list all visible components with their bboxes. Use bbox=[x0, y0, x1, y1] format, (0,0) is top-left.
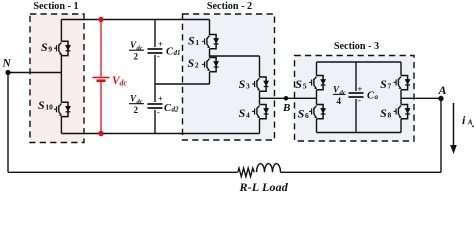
svg-text:dc: dc bbox=[120, 79, 128, 88]
svg-text:S: S bbox=[239, 77, 246, 91]
svg-text:8: 8 bbox=[388, 110, 392, 119]
svg-text:d2: d2 bbox=[172, 106, 180, 114]
svg-text:S: S bbox=[188, 34, 195, 48]
svg-text:-: - bbox=[157, 51, 160, 61]
svg-text:2: 2 bbox=[134, 105, 139, 115]
svg-text:1: 1 bbox=[195, 38, 199, 47]
svg-text:d1: d1 bbox=[174, 49, 181, 57]
svg-text:R-L Load: R-L Load bbox=[239, 180, 289, 193]
svg-text:7: 7 bbox=[388, 82, 392, 91]
svg-text:S: S bbox=[380, 106, 387, 120]
svg-text:S: S bbox=[380, 77, 387, 91]
svg-text:B: B bbox=[282, 102, 290, 114]
svg-text:A: A bbox=[467, 117, 473, 126]
svg-text:-: - bbox=[358, 95, 361, 105]
svg-text:3: 3 bbox=[246, 82, 250, 91]
svg-text:Section - 1: Section - 1 bbox=[33, 1, 78, 12]
svg-text:-: - bbox=[157, 107, 160, 117]
svg-text:S: S bbox=[239, 106, 246, 120]
svg-text:S: S bbox=[38, 98, 45, 112]
svg-text:9: 9 bbox=[48, 44, 52, 53]
svg-text:5: 5 bbox=[303, 81, 307, 90]
svg-text:S: S bbox=[188, 56, 195, 70]
svg-text:+: + bbox=[158, 39, 163, 49]
svg-text:A: A bbox=[438, 83, 447, 97]
svg-text:S: S bbox=[298, 107, 305, 121]
svg-text:Section - 2: Section - 2 bbox=[207, 1, 252, 12]
svg-text:4: 4 bbox=[246, 110, 250, 119]
svg-text:+: + bbox=[158, 94, 163, 104]
svg-text:S: S bbox=[41, 40, 48, 54]
svg-text:4: 4 bbox=[337, 96, 342, 106]
svg-text:+: + bbox=[358, 84, 363, 94]
svg-text:6: 6 bbox=[305, 111, 309, 120]
svg-text:N: N bbox=[2, 58, 12, 70]
svg-text:2: 2 bbox=[195, 61, 199, 70]
svg-text:a: a bbox=[375, 93, 379, 101]
svg-text:10: 10 bbox=[45, 103, 53, 112]
svg-text:Section - 3: Section - 3 bbox=[334, 41, 379, 52]
svg-text:S: S bbox=[295, 77, 302, 91]
svg-text:i: i bbox=[462, 113, 466, 127]
svg-text:2: 2 bbox=[134, 52, 139, 62]
